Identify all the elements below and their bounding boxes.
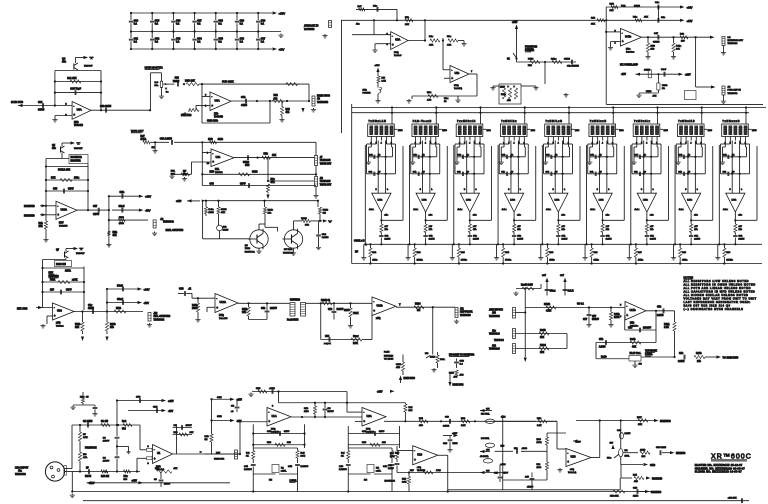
- svg-text:600PF: 600PF: [337, 309, 344, 311]
- svg-text:CRxx: CRxx: [550, 291, 557, 293]
- svg-text:R107: R107: [344, 310, 350, 312]
- svg-text:743B: 743B: [245, 247, 251, 250]
- svg-text:547E: 547E: [453, 442, 458, 445]
- svg-text:-: -: [211, 95, 212, 99]
- svg-text:2.2/95: 2.2/95: [678, 361, 685, 363]
- svg-text:.04P2: .04P2: [269, 387, 275, 390]
- svg-text:MONSND: MONSND: [652, 479, 663, 481]
- svg-text:2.2/35: 2.2/35: [562, 239, 569, 241]
- svg-text:125Hz: 125Hz: [417, 260, 423, 262]
- svg-text:CB: CB: [231, 406, 235, 408]
- svg-text:714B003B: 714B003B: [317, 101, 328, 104]
- svg-text:P14x: P14x: [676, 45, 682, 48]
- svg-text:2.2/35: 2.2/35: [739, 239, 746, 241]
- svg-text:K7b: K7b: [214, 114, 219, 116]
- svg-text:2.5K: 2.5K: [353, 343, 358, 345]
- svg-text:L73b: L73b: [510, 200, 516, 202]
- svg-text:R3B: R3B: [610, 3, 615, 5]
- svg-text:JB: JB: [317, 99, 320, 101]
- svg-text:5: 5: [508, 189, 509, 191]
- svg-text:10E: 10E: [75, 327, 80, 329]
- svg-text:+: +: [154, 457, 156, 461]
- svg-text:U5b: U5b: [455, 71, 460, 75]
- svg-text:R2B: R2B: [537, 418, 542, 420]
- svg-text:+15V: +15V: [377, 392, 383, 394]
- svg-text:R7B: R7B: [210, 171, 215, 173]
- svg-text:39PF: 39PF: [68, 189, 74, 191]
- svg-text:CW: CW: [486, 450, 490, 452]
- svg-text:POWER: POWER: [363, 93, 371, 95]
- svg-text:Pxxb833M: Pxxb833M: [287, 320, 298, 322]
- svg-text:.100B: .100B: [522, 448, 528, 450]
- svg-text:7x0xxx: 7x0xxx: [56, 326, 64, 328]
- svg-text:2.3/95: 2.3/95: [657, 315, 664, 317]
- svg-text:R7b: R7b: [405, 17, 410, 19]
- svg-text:4.7b: 4.7b: [429, 44, 434, 47]
- svg-text:180PF: 180PF: [328, 411, 335, 413]
- svg-text:R52: R52: [274, 95, 279, 97]
- svg-text:xBB 27K: xBB 27K: [728, 498, 737, 500]
- svg-text:F.2/35: F.2/35: [173, 81, 180, 83]
- svg-text:C9 0.1: C9 0.1: [577, 304, 584, 306]
- svg-text:R4B: R4B: [362, 441, 367, 444]
- svg-text:M5B: M5B: [398, 130, 403, 132]
- svg-text:R14b: R14b: [696, 352, 702, 355]
- svg-text:CW: CW: [486, 409, 490, 411]
- svg-text:U16b: U16b: [377, 303, 384, 307]
- svg-text:LAST REFERENCE DESIGNATOR USED: LAST REFERENCE DESIGNATOR USED:: [684, 300, 751, 304]
- svg-text:7640172: 7640172: [417, 469, 426, 472]
- svg-text:+: +: [212, 160, 214, 164]
- svg-text:U1A: U1A: [272, 414, 277, 418]
- svg-text:473PF: 473PF: [527, 486, 534, 489]
- svg-text:DN: DN: [364, 480, 368, 482]
- svg-text:7640017: 7640017: [74, 147, 83, 150]
- svg-text:F17B: F17B: [646, 91, 652, 93]
- svg-text:CB: CB: [328, 408, 332, 410]
- svg-text:B42: B42: [286, 108, 291, 111]
- svg-text:Px1B: Px1B: [384, 352, 390, 354]
- svg-text:R11b: R11b: [396, 364, 402, 366]
- svg-text:MAINBUS: MAINBUS: [660, 420, 671, 423]
- svg-text:7x6x450: 7x6x450: [219, 317, 228, 320]
- svg-text:7640T2: 7640T2: [215, 171, 223, 174]
- svg-text:+: +: [57, 213, 59, 217]
- svg-text:5: 5: [730, 189, 731, 191]
- svg-text:15B: 15B: [651, 49, 655, 51]
- svg-text:R4B 12K: R4B 12K: [185, 80, 195, 83]
- svg-text:+: +: [626, 313, 628, 317]
- svg-text:47E: 47E: [396, 366, 400, 369]
- svg-text:U6A: U6A: [215, 98, 220, 102]
- svg-text:C1B: C1B: [362, 431, 367, 433]
- svg-text:R114: R114: [430, 356, 436, 359]
- svg-text:ALL POTS ARE LINEAR UNLESS NOT: ALL POTS ARE LINEAR UNLESS NOTED: [684, 286, 752, 290]
- svg-text:C9b: C9b: [679, 353, 684, 355]
- svg-text:U10: U10: [417, 452, 422, 456]
- svg-text:+x?: +x?: [560, 275, 565, 277]
- svg-text:1M: 1M: [205, 439, 208, 441]
- svg-text:7xMBxL1M: 7xMBxL1M: [369, 121, 387, 123]
- svg-text:GRx5: GRx5: [117, 299, 124, 301]
- svg-text:330PF: 330PF: [592, 319, 599, 321]
- svg-text:CRB: CRB: [217, 416, 222, 418]
- svg-text:Bd 50KL: Bd 50KL: [481, 438, 490, 440]
- svg-text:R14B: R14B: [301, 217, 307, 220]
- svg-text:BEVERB: BEVERB: [384, 356, 394, 358]
- svg-text:RxxB 2.2M: RxxB 2.2M: [521, 285, 533, 287]
- svg-text:56/V5: 56/V5: [85, 476, 92, 478]
- svg-text:+: +: [567, 460, 569, 464]
- svg-text:R12B 61: R12B 61: [321, 300, 331, 302]
- svg-text:4KHz: 4KHz: [638, 259, 643, 262]
- svg-text:RTL: RTL: [215, 169, 220, 171]
- svg-text:x1B4: x1B4: [501, 463, 507, 466]
- svg-text:DN: DN: [425, 353, 429, 355]
- svg-text:22B: 22B: [642, 456, 646, 458]
- svg-text:SUB 610K: SUB 610K: [222, 80, 234, 83]
- svg-text:+: +: [373, 309, 375, 313]
- svg-text:RTV: RTV: [59, 223, 64, 225]
- svg-text:R7E: R7E: [51, 178, 56, 180]
- svg-text:K1B: K1B: [267, 442, 272, 444]
- svg-text:U5A: U5A: [395, 38, 400, 42]
- svg-text:R140 1M: R140 1M: [56, 263, 66, 266]
- svg-text:F131: F131: [50, 280, 56, 282]
- svg-text:7xMBiLxB: 7xMBiLxB: [546, 121, 563, 123]
- svg-text:+15?: +15?: [375, 65, 381, 67]
- svg-text:+: +: [622, 40, 624, 44]
- svg-text:97b: 97b: [62, 61, 67, 64]
- svg-text:M5D: M5D: [442, 130, 447, 132]
- svg-text:+: +: [392, 43, 394, 47]
- svg-text:C6x7: C6x7: [661, 69, 667, 71]
- svg-text:22B: 22B: [287, 442, 291, 444]
- svg-text:7x64x0: 7x64x0: [394, 54, 402, 57]
- svg-text:15K: 15K: [638, 424, 642, 426]
- svg-text:M11B: M11B: [544, 304, 550, 306]
- svg-text:C22 22/25: C22 22/25: [100, 105, 112, 108]
- svg-text:U13: U13: [57, 309, 62, 313]
- svg-text:10BL: 10BL: [625, 456, 631, 458]
- svg-text:Rx17: Rx17: [500, 87, 506, 89]
- svg-text:U3A: U3A: [77, 107, 82, 111]
- svg-text:10F: 10F: [50, 290, 55, 292]
- svg-text:200K: 200K: [192, 308, 198, 310]
- svg-text:610b: 610b: [218, 139, 224, 141]
- svg-text:1.3K: 1.3K: [537, 425, 542, 427]
- svg-text:+: +: [363, 419, 365, 423]
- svg-text:15PF: 15PF: [503, 473, 509, 475]
- svg-text:2.2/35: 2.2/35: [606, 239, 613, 241]
- svg-text:7xMBlxxB: 7xMBlxxB: [590, 121, 607, 123]
- svg-text:ALL CAPACITORS IN MFD UNLESS N: ALL CAPACITORS IN MFD UNLESS NOTED: [684, 289, 756, 293]
- svg-text:C9b: C9b: [661, 17, 666, 19]
- svg-text:C1B: C1B: [494, 473, 499, 475]
- svg-text:10E: 10E: [540, 337, 545, 339]
- svg-text:-: -: [212, 151, 213, 155]
- svg-text:GRB 610b: GRB 610b: [207, 121, 219, 123]
- svg-text:R4b: R4b: [680, 32, 685, 35]
- svg-text:2.2/35: 2.2/35: [385, 239, 392, 241]
- svg-text:C4B: C4B: [288, 465, 293, 468]
- svg-text:7640007: 7640007: [84, 65, 93, 68]
- svg-text:-: -: [567, 451, 568, 455]
- svg-text:-15V: -15V: [168, 410, 173, 413]
- svg-text:L73b: L73b: [555, 200, 561, 202]
- svg-text:NOTES: NOTES: [684, 275, 694, 279]
- svg-text:-15V: -15V: [279, 47, 285, 51]
- svg-text:+: +: [216, 306, 218, 310]
- svg-text:250Hz: 250Hz: [461, 260, 467, 262]
- svg-text:7646450: 7646450: [59, 225, 68, 228]
- svg-text:CR2: CR2: [153, 406, 158, 408]
- svg-text:+x?: +x?: [542, 275, 547, 277]
- svg-text:NBB: NBB: [116, 308, 121, 310]
- svg-text:52/35: 52/35: [223, 230, 229, 232]
- svg-text:-: -: [216, 296, 217, 300]
- svg-text:1P: 1P: [86, 467, 89, 469]
- svg-text:7x64x50: 7x64x50: [366, 431, 375, 434]
- svg-text:45K: 45K: [221, 211, 225, 214]
- svg-text:R41 15K: R41 15K: [67, 77, 77, 80]
- svg-text:R11b: R11b: [242, 309, 248, 311]
- svg-text:220PF: 220PF: [270, 308, 277, 310]
- svg-text:65th: 65th: [363, 89, 368, 92]
- svg-text:RTQ: RTQ: [366, 429, 371, 431]
- svg-text:M9b: M9b: [113, 232, 118, 234]
- svg-text:-: -: [154, 447, 155, 451]
- svg-text:-: -: [451, 68, 452, 72]
- svg-text:15K: 15K: [39, 226, 44, 228]
- svg-text:RTQ: RTQ: [219, 315, 224, 317]
- svg-text:C4b: C4b: [241, 96, 246, 99]
- svg-text:MBB: MBB: [119, 217, 124, 219]
- svg-text:220K: 220K: [614, 317, 620, 319]
- svg-text:R13b: R13b: [110, 324, 116, 326]
- svg-text:714B00x3: 714B00x3: [489, 333, 500, 336]
- svg-text:REVERB: REVERB: [290, 299, 300, 302]
- svg-text:7xMBxi1x: 7xMBxi1x: [634, 121, 651, 123]
- svg-text:U1: U1: [157, 451, 161, 455]
- svg-text:C74: C74: [325, 335, 330, 338]
- svg-text:+15V: +15V: [132, 480, 138, 482]
- svg-text:RTQ: RTQ: [271, 429, 276, 431]
- svg-text:16KHz: 16KHz: [726, 260, 732, 262]
- svg-text:C7b: C7b: [328, 309, 333, 311]
- svg-text:2KHz: 2KHz: [594, 260, 599, 262]
- svg-text:AUX INPUTS: AUX INPUTS: [489, 309, 503, 312]
- svg-text:+: +: [211, 104, 213, 108]
- svg-text:R6b: R6b: [39, 223, 44, 225]
- svg-text:C4B: C4B: [383, 465, 388, 468]
- svg-text:100R: 100R: [537, 442, 542, 444]
- svg-text:CRB: CRB: [217, 397, 222, 399]
- svg-text:L73b: L73b: [687, 200, 693, 202]
- svg-text:L73b: L73b: [599, 200, 605, 202]
- svg-text:MON BUS: MON BUS: [453, 384, 464, 386]
- svg-text:TAPE OUT: TAPE OUT: [131, 129, 144, 133]
- svg-text:ALL RESISTORS IN OHMS UNLESS N: ALL RESISTORS IN OHMS UNLESS NOTED: [684, 282, 756, 286]
- svg-text:+15V: +15V: [89, 483, 95, 485]
- svg-text:97b: 97b: [52, 148, 57, 150]
- svg-text:"X": "X": [77, 142, 81, 146]
- svg-text:MONBUS: MONBUS: [651, 492, 662, 494]
- svg-text:+: +: [268, 419, 270, 423]
- svg-text:60K: 60K: [190, 432, 194, 434]
- svg-text:MB: MB: [83, 454, 87, 456]
- svg-text:xBKL: xBKL: [281, 471, 287, 473]
- svg-text:20K: 20K: [409, 410, 413, 412]
- svg-text:PWR AMP IN: PWR AMP IN: [728, 89, 742, 92]
- svg-text:10K: 10K: [405, 24, 409, 26]
- svg-text:CR1: CR1: [322, 234, 327, 236]
- svg-text:20B: 20B: [305, 225, 309, 227]
- svg-text:R114: R114: [415, 303, 421, 306]
- svg-text:88/V5: 88/V5: [38, 109, 45, 112]
- svg-text:22B: 22B: [382, 442, 386, 444]
- svg-text:U17b: U17b: [630, 308, 637, 312]
- svg-text:47B: 47B: [634, 480, 638, 483]
- svg-text:105x: 105x: [74, 178, 80, 180]
- svg-text:Cxxx: Cxxx: [353, 336, 359, 338]
- svg-text:CRb: CRb: [120, 192, 125, 194]
- svg-text:U16A: U16A: [220, 300, 227, 304]
- svg-text:7646450: 7646450: [214, 116, 224, 119]
- svg-text:714B0145: 714B0145: [320, 180, 331, 183]
- svg-text:MAIN BUS: MAIN BUS: [404, 377, 416, 380]
- svg-text:R9B: R9B: [208, 139, 213, 141]
- svg-text:8KHz: 8KHz: [682, 260, 687, 262]
- svg-text:7x680032: 7x680032: [304, 29, 315, 31]
- svg-text:2.7K: 2.7K: [664, 327, 669, 329]
- svg-text:xTQ: xTQ: [56, 323, 61, 325]
- svg-text:U1B: U1B: [571, 455, 576, 459]
- svg-text:C1B: C1B: [443, 443, 448, 445]
- svg-text:5: 5: [464, 189, 465, 191]
- svg-text:39PF: 39PF: [66, 290, 72, 292]
- svg-text:R13 1M: R13 1M: [101, 476, 109, 478]
- svg-text:220E: 220E: [209, 212, 215, 214]
- svg-text:LR: LR: [728, 37, 731, 39]
- svg-text:22K: 22K: [242, 312, 247, 314]
- svg-text:61/V5: 61/V5: [93, 214, 100, 216]
- svg-text:M3D: M3D: [537, 439, 542, 441]
- svg-text:45K: 45K: [113, 234, 118, 237]
- svg-text:C9B: C9B: [460, 361, 465, 363]
- svg-text:10b: 10b: [110, 327, 115, 329]
- svg-text:+15V: +15V: [144, 287, 150, 291]
- svg-text:ALL DIODES SIMILAR UNLESS NOTE: ALL DIODES SIMILAR UNLESS NOTED: [684, 293, 749, 297]
- svg-text:63Hz: 63Hz: [372, 260, 377, 262]
- svg-text:F13b: F13b: [75, 324, 81, 326]
- svg-text:x20K: x20K: [72, 280, 78, 282]
- svg-text:20b: 20b: [268, 213, 272, 215]
- svg-text:-: -: [373, 300, 374, 304]
- svg-text:4.7M: 4.7M: [546, 310, 551, 313]
- svg-text:C54: C54: [210, 182, 215, 185]
- svg-text:PAD-VocxB: PAD-VocxB: [413, 120, 432, 123]
- svg-text:714B0030: 714B0030: [460, 314, 471, 317]
- svg-text:LIN-2 INPUT: LIN-2 INPUT: [15, 468, 29, 470]
- svg-text:5: 5: [420, 189, 421, 191]
- svg-text:C29: C29: [175, 78, 180, 80]
- svg-text:C.2/3B: C.2/3B: [322, 237, 329, 239]
- svg-text:DR42: DR42: [117, 284, 124, 287]
- svg-text:MAIN SUB: MAIN SUB: [11, 101, 23, 104]
- svg-text:7x6x0xx: 7x6x0xx: [626, 52, 635, 54]
- svg-text:+15V: +15V: [452, 433, 458, 435]
- svg-text:MONITOR OUT: MONITOR OUT: [728, 40, 744, 42]
- svg-text:7xxMBix1B: 7xxMBix1B: [457, 121, 476, 123]
- svg-text:714B0092: 714B0092: [214, 458, 225, 461]
- svg-text:R5b: R5b: [630, 323, 635, 325]
- svg-text:10K: 10K: [676, 49, 680, 51]
- svg-text:EFXBUS: EFXBUS: [676, 453, 686, 455]
- svg-text:REF FT.SW.: REF FT.SW.: [460, 312, 473, 314]
- svg-text:R7x: R7x: [271, 179, 276, 181]
- svg-text:12K: 12K: [171, 173, 175, 175]
- svg-text:A32B: A32B: [640, 448, 646, 451]
- svg-text:2.2K: 2.2K: [402, 482, 407, 484]
- svg-text:-: -: [73, 104, 74, 108]
- svg-text:xTQ: xTQ: [376, 318, 381, 320]
- svg-text:SUB: SUB: [651, 46, 656, 48]
- svg-text:C4B: C4B: [267, 430, 272, 433]
- svg-text:RB 50KL: RB 50KL: [481, 414, 490, 416]
- svg-text:2.2/xP: 2.2/xP: [388, 468, 394, 470]
- svg-text:1.5E: 1.5E: [382, 81, 387, 83]
- svg-text:L73b: L73b: [422, 200, 428, 202]
- svg-text:MON. OUTPUTS: MON. OUTPUTS: [166, 230, 184, 232]
- svg-text:3BPF: 3BPF: [284, 431, 290, 433]
- svg-text:10E: 10E: [540, 352, 545, 354]
- svg-text:PR51A 97E: PR51A 97E: [58, 169, 71, 172]
- svg-text:-: -: [414, 449, 415, 453]
- svg-text:C8B: C8B: [179, 289, 184, 291]
- svg-text:2.2/35: 2.2/35: [650, 239, 657, 241]
- svg-text:K9B: K9B: [74, 122, 79, 124]
- svg-text:MAIN OUTS: MAIN OUTS: [317, 95, 330, 98]
- svg-text:"X": "X": [90, 56, 94, 60]
- svg-text:MONITOR: MONITOR: [385, 481, 396, 483]
- svg-text:VOLTAGES MAY VARY FROM UNIT TO: VOLTAGES MAY VARY FROM UNIT TO UNIT: [684, 296, 757, 300]
- svg-text:714B0143: 714B0143: [320, 159, 331, 162]
- svg-text:R421: R421: [664, 323, 670, 326]
- svg-text:C5A 0.5/35: C5A 0.5/35: [160, 138, 173, 141]
- svg-text:RTQ: RTQ: [454, 85, 459, 87]
- svg-text:71488032: 71488032: [728, 42, 739, 45]
- svg-text:470PF: 470PF: [186, 424, 193, 427]
- svg-text:CRx5: CRx5: [119, 206, 126, 208]
- svg-text:4B B0KL: 4B B0KL: [480, 455, 489, 458]
- svg-text:15K: 15K: [591, 24, 595, 26]
- svg-text:4.7b: 4.7b: [447, 44, 452, 47]
- svg-text:R13B: R13B: [221, 209, 227, 211]
- svg-text:C77: C77: [592, 316, 597, 318]
- svg-text:714B0042: 714B0042: [163, 221, 174, 224]
- svg-text:BF 765b: BF 765b: [284, 249, 293, 251]
- svg-text:7640017: 7640017: [76, 252, 85, 255]
- svg-text:+15V: +15V: [512, 22, 518, 24]
- svg-text:4.7K: 4.7K: [83, 436, 88, 439]
- svg-text:SLIDER NO. MXXXXB1X9 14-07-87: SLIDER NO. MXXXXB1X9 14-07-87: [695, 470, 742, 473]
- svg-text:C55: C55: [53, 189, 58, 191]
- svg-text:R13x: R13x: [551, 59, 557, 61]
- svg-text:"X": "X": [80, 247, 84, 251]
- svg-text:1000PF: 1000PF: [643, 328, 652, 330]
- svg-text:650K: 650K: [353, 313, 359, 315]
